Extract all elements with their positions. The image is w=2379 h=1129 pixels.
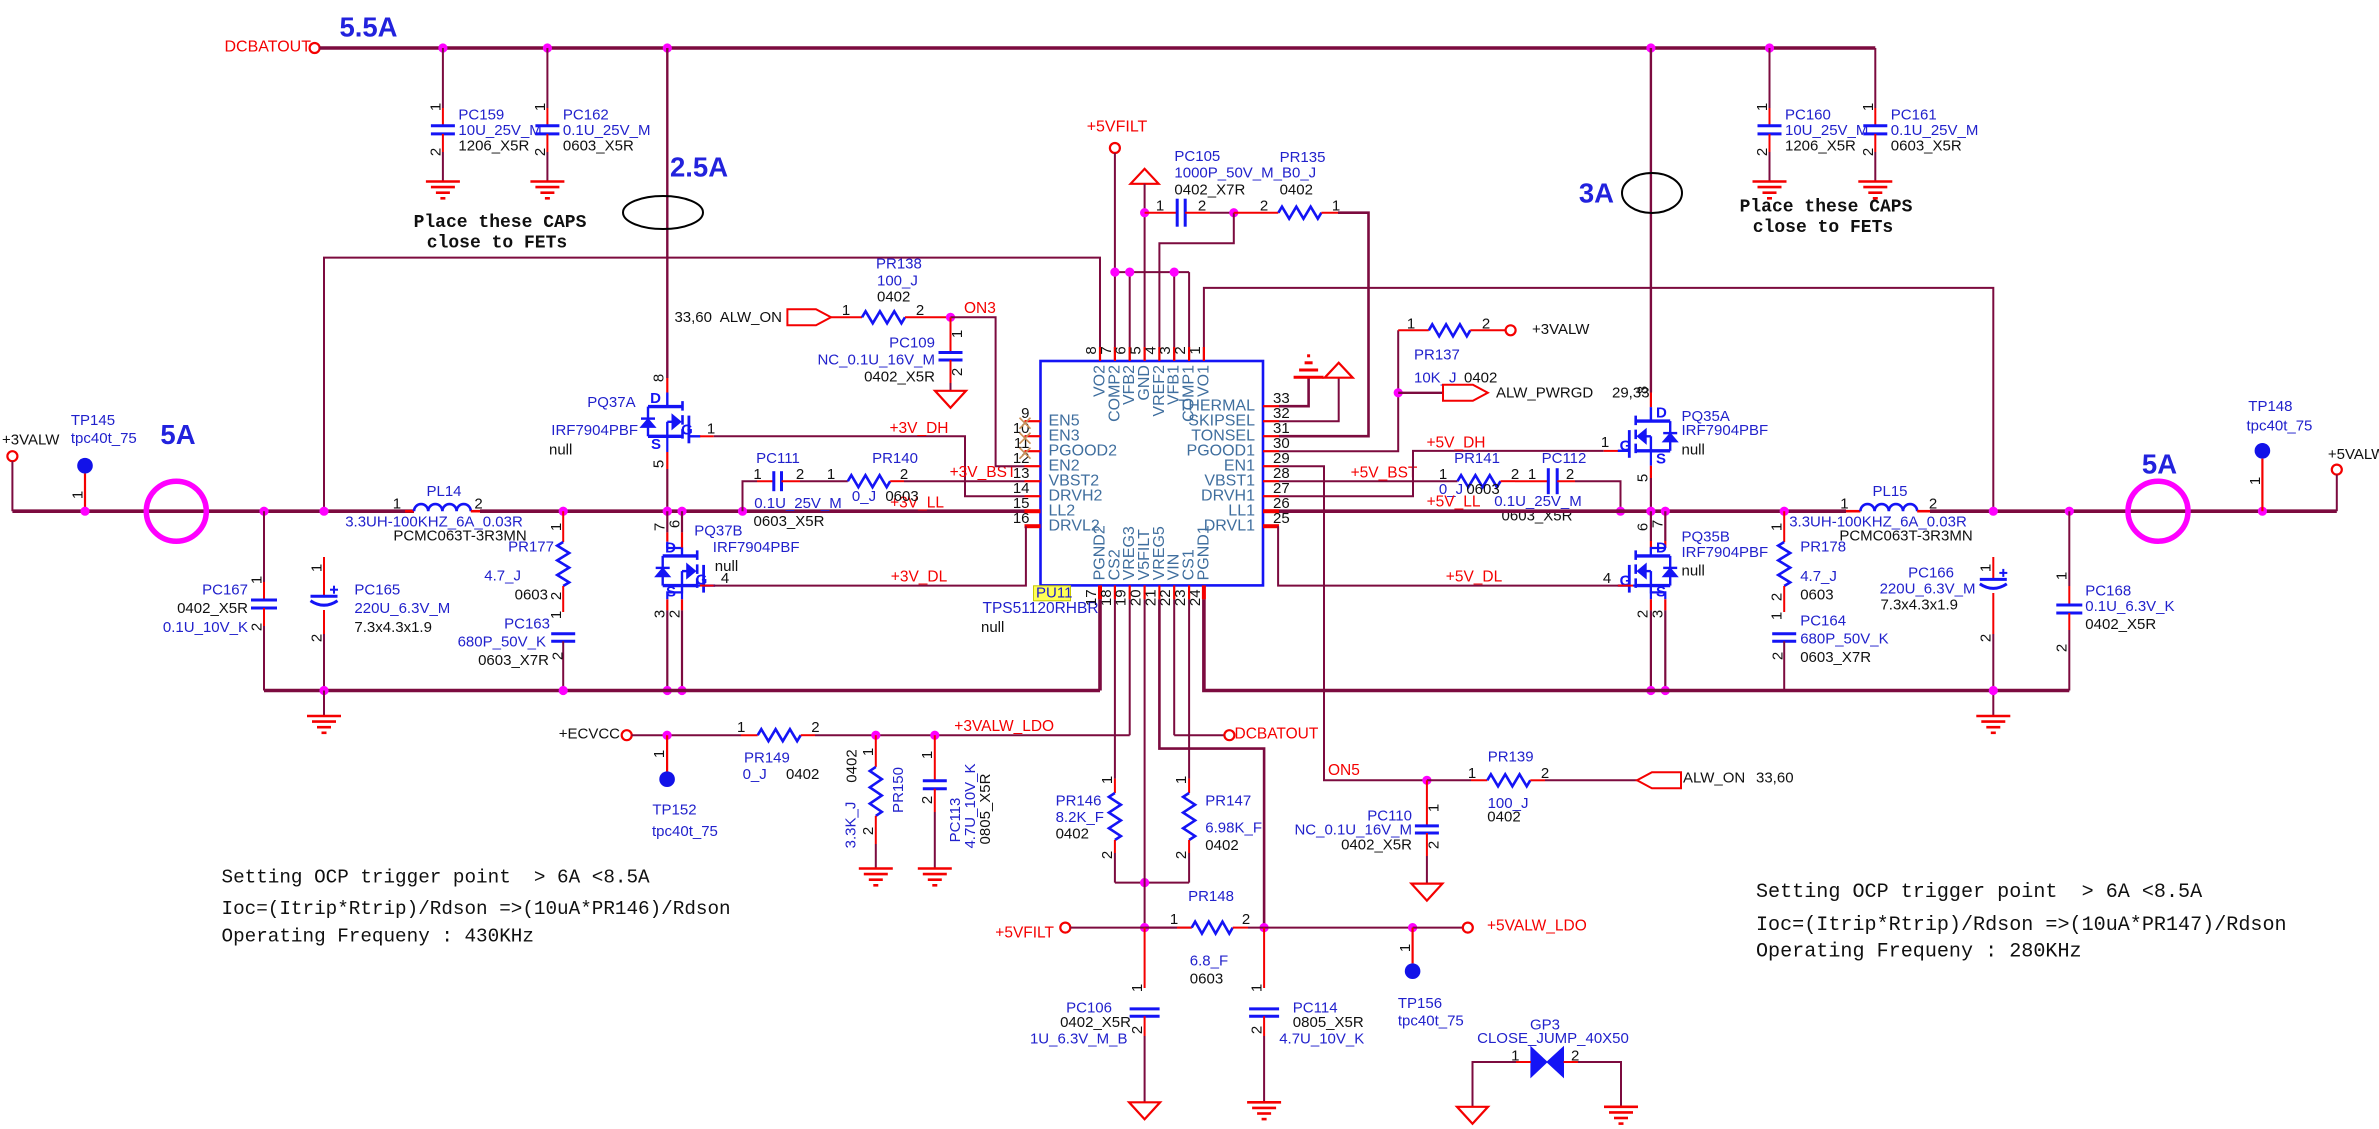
- wire PQ35B sources to ground bus: [1651, 586, 1665, 600]
- svg-text:PR150: PR150: [890, 767, 907, 813]
- wire PQ37B gate +3V_DL to DRVL2 (pin 16): [694, 584, 701, 586]
- svg-text:PR138: PR138: [876, 256, 922, 273]
- svg-text:0805_X5R: 0805_X5R: [977, 773, 994, 844]
- IC top pins 8-1 stubs and names: [1099, 347, 1101, 361]
- svg-text:1: 1: [393, 496, 401, 513]
- svg-text:0402: 0402: [1280, 181, 1313, 198]
- svg-text:IRF7904PBF: IRF7904PBF: [551, 422, 638, 439]
- capacitor PC113: [930, 731, 939, 740]
- svg-text:Setting OCP trigger point > 6: Setting OCP trigger point > 6A <8.5A: [222, 867, 651, 889]
- ground arrow (below PC109): [935, 391, 966, 408]
- svg-text:680P_50V_K: 680P_50V_K: [1800, 631, 1888, 648]
- svg-text:0603_X5R: 0603_X5R: [563, 138, 634, 155]
- transistor PQ37A (high-side FET, 3V): [666, 378, 668, 393]
- current loop ellipse (3A): [1622, 173, 1682, 213]
- svg-text:2: 2: [249, 623, 266, 631]
- wire +ECVCC / +3VALW_LDO row: [632, 734, 741, 736]
- svg-text:1: 1: [860, 748, 877, 756]
- svg-text:0.1U_25V_M: 0.1U_25V_M: [754, 495, 842, 512]
- wire COMP/VFB row (pins 7,6,3,2): [1115, 271, 1189, 273]
- svg-text:3: 3: [1650, 610, 1667, 618]
- svg-text:2: 2: [1754, 148, 1771, 156]
- svg-text:Setting OCP trigger point > 6: Setting OCP trigger point > 6A <8.5A: [1756, 881, 2203, 904]
- svg-text:2: 2: [667, 610, 684, 618]
- wire ground bus (left): [264, 689, 1100, 693]
- svg-text:1U_6.3V_M_B: 1U_6.3V_M_B: [1030, 1031, 1128, 1048]
- svg-text:1: 1: [1601, 434, 1609, 451]
- current loop circle 5A (left): [146, 481, 206, 541]
- svg-text:null: null: [549, 442, 572, 459]
- junction dots on top bus: [438, 43, 447, 52]
- svg-text:0402: 0402: [1205, 837, 1238, 854]
- svg-text:0603: 0603: [1800, 587, 1833, 604]
- svg-text:+5V_DL: +5V_DL: [1446, 569, 1503, 586]
- svg-text:1: 1: [532, 103, 549, 111]
- svg-text:2: 2: [1566, 466, 1574, 483]
- svg-text:PC109: PC109: [889, 335, 935, 352]
- svg-text:PQ37B: PQ37B: [694, 522, 742, 539]
- svg-text:1: 1: [548, 523, 565, 531]
- svg-text:PC162: PC162: [563, 107, 609, 124]
- svg-text:2.5A: 2.5A: [670, 152, 728, 183]
- wire PQ35A source to LL1 bus: [1650, 451, 1652, 466]
- node dots ground bus left: [319, 686, 328, 695]
- svg-text:TPS51120RHBR: TPS51120RHBR: [983, 600, 1099, 617]
- svg-text:1: 1: [1468, 765, 1476, 782]
- resistor PR147 (CS1 OCP set): [1188, 599, 1190, 778]
- capacitor PC161: [1874, 48, 1876, 108]
- testpoint TP152: [663, 731, 672, 740]
- svg-text:Operating Frequeny : 430KHz: Operating Frequeny : 430KHz: [222, 925, 534, 947]
- svg-text:2: 2: [532, 148, 549, 156]
- wire +3VALW output bus (left of PL14): [12, 509, 414, 513]
- svg-text:0.1U_10V_K: 0.1U_10V_K: [163, 619, 248, 636]
- svg-text:G: G: [681, 422, 693, 439]
- svg-text:1206_X5R: 1206_X5R: [458, 138, 529, 155]
- wire +5VFILT row: [1070, 927, 1191, 929]
- svg-text:1: 1: [1978, 564, 1995, 572]
- IC left pins 9-16 stubs and names: [1025, 420, 1041, 422]
- svg-text:5: 5: [651, 460, 668, 468]
- ground (below PC113): [918, 867, 952, 870]
- svg-text:1: 1: [548, 611, 565, 619]
- svg-text:0402_X5R: 0402_X5R: [1060, 1014, 1131, 1031]
- resistor PR138: [831, 316, 862, 318]
- svg-text:1: 1: [1170, 911, 1178, 928]
- node PC105 pin2 junction: [1229, 208, 1238, 217]
- svg-text:ALW_ON: ALW_ON: [1683, 770, 1745, 787]
- svg-text:+5VFILT: +5VFILT: [1087, 119, 1148, 136]
- svg-text:10U_25V_M: 10U_25V_M: [458, 122, 541, 139]
- svg-text:PQ35B: PQ35B: [1682, 528, 1730, 545]
- power arrow (above SKIPSEL pin 32): [1279, 378, 1339, 422]
- svg-text:0_J: 0_J: [743, 766, 767, 783]
- svg-text:NC_0.1U_16V_M: NC_0.1U_16V_M: [817, 352, 935, 369]
- svg-text:PGND1: PGND1: [1195, 525, 1212, 580]
- ground (earth below left bus): [323, 691, 325, 717]
- wire VBST1 (pin 28) +5V_BST: [1279, 480, 1458, 482]
- svg-text:5A: 5A: [160, 419, 195, 450]
- svg-text:PC112: PC112: [1542, 450, 1587, 467]
- svg-text:IRF7904PBF: IRF7904PBF: [713, 539, 800, 556]
- svg-text:CLOSE_JUMP_40X50: CLOSE_JUMP_40X50: [1477, 1030, 1629, 1047]
- svg-text:2: 2: [1198, 198, 1206, 215]
- svg-text:PC160: PC160: [1785, 107, 1831, 124]
- svg-text:1: 1: [1528, 466, 1536, 483]
- svg-text:TP148: TP148: [2248, 398, 2292, 415]
- svg-text:+5V_LL: +5V_LL: [1427, 494, 1481, 511]
- svg-text:8: 8: [1635, 386, 1652, 394]
- svg-text:+3VALW: +3VALW: [1532, 321, 1590, 338]
- svg-text:1: 1: [1099, 776, 1116, 784]
- svg-text:PR148: PR148: [1188, 888, 1234, 905]
- svg-text:G: G: [1620, 573, 1632, 590]
- svg-text:2: 2: [1129, 1026, 1146, 1034]
- capacitor PC111 (bootstrap): [738, 507, 747, 516]
- transistor PQ35A (high-side FET, 5V): [1650, 393, 1652, 408]
- svg-text:10U_25V_M: 10U_25V_M: [1785, 122, 1868, 139]
- svg-text:6.98K_F: 6.98K_F: [1205, 820, 1262, 837]
- svg-text:+ECVCC: +ECVCC: [559, 726, 620, 743]
- svg-text:2: 2: [919, 796, 936, 804]
- capacitor PC112 (bootstrap): [1515, 480, 1548, 482]
- svg-text:tpc40t_75: tpc40t_75: [71, 430, 137, 447]
- svg-text:2: 2: [549, 652, 566, 660]
- svg-text:0402_X5R: 0402_X5R: [2085, 616, 2156, 633]
- svg-text:0402: 0402: [844, 749, 861, 782]
- svg-text:2: 2: [2054, 644, 2071, 652]
- op-amp U1 IC PU11 TPS51120RHBR body: [1041, 361, 1264, 585]
- svg-text:PC165: PC165: [354, 581, 400, 598]
- svg-text:1: 1: [1425, 804, 1442, 812]
- svg-text:null: null: [1682, 442, 1705, 459]
- svg-text:2: 2: [1860, 148, 1877, 156]
- svg-text:2: 2: [1248, 1026, 1265, 1034]
- svg-text:1: 1: [1407, 316, 1415, 333]
- svg-text:2: 2: [949, 368, 966, 376]
- wire PQ35B gate +5V_DL to DRVL1 (pin 25): [1633, 584, 1639, 586]
- svg-text:0603_X7R: 0603_X7R: [478, 652, 549, 669]
- node dots LL1 bus: [1646, 507, 1655, 516]
- no-connect X on pins 9,10,11: [1020, 418, 1031, 429]
- svg-text:0603: 0603: [1190, 971, 1223, 988]
- port +5VALW_LDO: [1413, 927, 1463, 929]
- wire DRVH1 (pin 27) +5V_DH to PQ35A gate: [1279, 451, 1604, 496]
- svg-text:6.8_F: 6.8_F: [1190, 953, 1228, 970]
- svg-text:0402_X7R: 0402_X7R: [1174, 181, 1245, 198]
- wire VO1 sense (pin 1 to +5VALW output): [1204, 288, 1993, 511]
- svg-text:4.7_J: 4.7_J: [484, 568, 521, 585]
- svg-text:TP152: TP152: [652, 802, 696, 819]
- svg-text:+5VALW_LDO: +5VALW_LDO: [1487, 918, 1587, 935]
- ground (earth, above THERMAL pin 33): [1279, 377, 1309, 406]
- capacitor PC106: [1144, 928, 1146, 1009]
- svg-text:close to FETs: close to FETs: [1753, 218, 1893, 238]
- svg-text:1: 1: [1840, 496, 1848, 513]
- IC right pins 33-25 stubs and names: [1263, 405, 1279, 407]
- port ALW_PWRGD (output arrow): [1398, 392, 1443, 394]
- wire ground bus (right, PGND1): [1204, 599, 2069, 690]
- ground arrow (below PC106): [1129, 1102, 1160, 1119]
- svg-text:PC167: PC167: [202, 581, 248, 598]
- node ALW_PWRGD junction: [1394, 388, 1403, 397]
- capacitor PC114: [1263, 928, 1265, 988]
- svg-text:G: G: [1620, 438, 1632, 455]
- svg-text:PR140: PR140: [872, 450, 918, 467]
- capacitor PC109: [950, 317, 952, 352]
- capacitor PC105: [1140, 208, 1149, 217]
- svg-text:1206_X5R: 1206_X5R: [1785, 138, 1856, 155]
- svg-text:0402: 0402: [1056, 826, 1089, 843]
- svg-text:1: 1: [842, 302, 850, 319]
- svg-text:2: 2: [1770, 652, 1787, 660]
- svg-text:PC166: PC166: [1908, 565, 1954, 582]
- svg-text:33,60: 33,60: [674, 309, 712, 326]
- wire +5VFILT to pin 7: [1114, 153, 1116, 361]
- svg-text:+5V_DH: +5V_DH: [1426, 435, 1485, 452]
- svg-text:1: 1: [827, 466, 835, 483]
- svg-text:ALW_PWRGD: ALW_PWRGD: [1496, 384, 1593, 401]
- svg-text:1: 1: [1860, 103, 1877, 111]
- svg-text:TP145: TP145: [71, 412, 115, 429]
- resistor PR150: [871, 731, 880, 740]
- wire +5VALW output bus (right of PL15): [1930, 509, 2337, 513]
- wire GP3 pin2 to earth ground: [1564, 1061, 1579, 1063]
- svg-text:PR147: PR147: [1205, 792, 1251, 809]
- svg-text:0402: 0402: [877, 289, 910, 306]
- svg-text:1: 1: [737, 719, 745, 736]
- svg-text:PR146: PR146: [1056, 792, 1102, 809]
- power port +3VALW (right): [1506, 325, 1516, 335]
- svg-text:+3V_DH: +3V_DH: [889, 420, 948, 437]
- svg-text:S: S: [1656, 450, 1666, 467]
- svg-text:1: 1: [1754, 103, 1771, 111]
- wire VREG5 (pin 21) to +5VFILT net: [1159, 599, 1264, 927]
- svg-text:2: 2: [1482, 316, 1490, 333]
- ground (earth below GP3 pin2): [1604, 1106, 1638, 1109]
- wire PR149 to VREG3: [815, 734, 1130, 736]
- svg-text:IRF7904PBF: IRF7904PBF: [1682, 544, 1769, 561]
- port DCBATOUT (bottom, VIN): [1173, 599, 1175, 735]
- svg-text:2: 2: [1173, 851, 1190, 859]
- svg-text:5A: 5A: [2142, 449, 2177, 480]
- node ON3: [946, 313, 955, 322]
- svg-text:2: 2: [811, 719, 819, 736]
- svg-text:6: 6: [667, 520, 684, 528]
- svg-text:0603_X7R: 0603_X7R: [1800, 649, 1871, 666]
- svg-text:680P_50V_K: 680P_50V_K: [458, 633, 546, 650]
- svg-text:null: null: [1682, 563, 1705, 580]
- wire EN1 to ON5: [1279, 466, 1427, 780]
- svg-text:33,60: 33,60: [1756, 770, 1794, 787]
- svg-text:2: 2: [427, 148, 444, 156]
- svg-text:2: 2: [916, 302, 924, 319]
- ground (earth below PC114): [1247, 1101, 1281, 1104]
- svg-text:PC164: PC164: [1800, 612, 1846, 629]
- svg-text:Operating Frequeny : 280KHz: Operating Frequeny : 280KHz: [1756, 941, 2082, 964]
- svg-text:0.1U_25V_M: 0.1U_25V_M: [563, 122, 651, 139]
- svg-text:1: 1: [2247, 477, 2264, 485]
- svg-text:Place these CAPS: Place these CAPS: [1740, 198, 1913, 218]
- wire triangle to GND pin 5: [1144, 184, 1146, 361]
- svg-text:1: 1: [1129, 984, 1146, 992]
- ground (earth below right bus): [1992, 691, 1994, 717]
- svg-text:1000P_50V_M_B0_J: 1000P_50V_M_B0_J: [1174, 165, 1316, 182]
- capacitor PC159: [442, 48, 444, 108]
- wire PQ37A gate +3V_DH to DRVH2 (pin 14): [700, 435, 714, 437]
- svg-text:1: 1: [1248, 984, 1265, 992]
- capacitor PC160: [1769, 48, 1771, 108]
- ground (below PR150): [859, 867, 893, 870]
- wire +3V_BST to VBST2 (pin 13): [904, 480, 1025, 482]
- capacitor PC162: [546, 48, 548, 108]
- wire PR146/PR147 bottoms to V5FILT: [1115, 882, 1189, 884]
- svg-text:100_J: 100_J: [877, 273, 918, 290]
- svg-text:PC168: PC168: [2085, 582, 2131, 599]
- svg-text:PCMC063T-3R3MN: PCMC063T-3R3MN: [393, 527, 526, 544]
- svg-text:1: 1: [1156, 198, 1164, 215]
- inductor PL15: [1846, 510, 1860, 513]
- svg-text:0603: 0603: [515, 586, 548, 603]
- svg-text:5.5A: 5.5A: [339, 12, 397, 43]
- svg-text:ON3: ON3: [964, 300, 996, 317]
- svg-text:ON5: ON5: [1328, 762, 1360, 779]
- svg-text:D: D: [665, 540, 676, 557]
- resistor PR148: [1145, 927, 1177, 929]
- svg-text:2: 2: [1242, 911, 1250, 928]
- svg-text:0402: 0402: [1487, 809, 1520, 826]
- svg-text:0.1U_25V_M: 0.1U_25V_M: [1891, 122, 1979, 139]
- resistor PR137 (PGOOD1 pull-up): [1279, 330, 1398, 451]
- wire PC105 pin2 loop to VREF2 (pin 4): [1159, 213, 1233, 361]
- svg-text:ALW_ON: ALW_ON: [720, 309, 782, 326]
- svg-text:PR135: PR135: [1280, 149, 1326, 166]
- resistor PR177 (snubber): [559, 507, 568, 516]
- svg-text:D: D: [650, 390, 661, 407]
- svg-text:VO1: VO1: [1195, 365, 1212, 397]
- svg-text:1: 1: [651, 750, 668, 758]
- svg-text:0.1U_6.3V_K: 0.1U_6.3V_K: [2085, 598, 2174, 615]
- inductor PL14: [405, 510, 414, 513]
- svg-text:220U_6.3V_M: 220U_6.3V_M: [1880, 581, 1976, 598]
- svg-text:PR149: PR149: [744, 749, 790, 766]
- svg-text:7.3x4.3x1.9: 7.3x4.3x1.9: [354, 619, 432, 636]
- svg-text:1: 1: [249, 576, 266, 584]
- wire PQ37B sources to ground bus: [667, 586, 682, 600]
- svg-text:7: 7: [1650, 520, 1667, 528]
- wire PQ37A source to LL bus: [666, 436, 668, 452]
- wire PR135 to TONSEL (pin 31): [1279, 213, 1369, 437]
- svg-text:7.3x4.3x1.9: 7.3x4.3x1.9: [1880, 597, 1958, 614]
- svg-text:+3VALW_LDO: +3VALW_LDO: [954, 718, 1054, 735]
- svg-text:2: 2: [1425, 841, 1442, 849]
- svg-text:PC161: PC161: [1891, 107, 1937, 124]
- svg-text:TP156: TP156: [1398, 995, 1442, 1012]
- svg-text:null: null: [981, 619, 1004, 636]
- svg-text:PL14: PL14: [426, 483, 461, 500]
- svg-text:1: 1: [753, 466, 761, 483]
- svg-text:2: 2: [548, 592, 565, 600]
- node +5VALW_LDO junction: [1408, 923, 1417, 932]
- svg-text:4.7U_10V_K: 4.7U_10V_K: [1279, 1031, 1364, 1048]
- svg-text:2: 2: [1978, 634, 1995, 642]
- svg-text:tpc40t_75: tpc40t_75: [652, 823, 718, 840]
- capacitor PC168: [2068, 511, 2070, 586]
- svg-text:1: 1: [427, 103, 444, 111]
- svg-text:PR177: PR177: [508, 539, 554, 556]
- IC PU11 designator (yellow highlight): [1034, 586, 1071, 601]
- wire 2.5A branch (top bus to PQ37A drain): [666, 48, 668, 378]
- svg-text:1: 1: [1187, 346, 1204, 354]
- svg-text:1: 1: [949, 330, 966, 338]
- svg-text:+5VFILT: +5VFILT: [995, 925, 1054, 942]
- svg-text:D: D: [1656, 540, 1667, 557]
- svg-text:1: 1: [707, 421, 715, 438]
- wire 3A branch (top bus to PQ35A drain): [1650, 48, 1652, 393]
- svg-text:2: 2: [1769, 593, 1786, 601]
- current loop ellipse (2.5A): [623, 196, 703, 229]
- svg-text:S: S: [651, 436, 661, 453]
- svg-text:0402_X5R: 0402_X5R: [1341, 837, 1412, 854]
- svg-text:+3V_DL: +3V_DL: [891, 569, 948, 586]
- wire PC112 to LL1 bus: [1575, 481, 1621, 511]
- testpoint TP156: [1411, 928, 1413, 964]
- svg-text:1: 1: [1397, 944, 1414, 952]
- wire +3VALW to output bus: [11, 461, 13, 511]
- svg-text:1: 1: [70, 491, 87, 499]
- svg-text:8: 8: [651, 374, 668, 382]
- svg-text:DCBATOUT: DCBATOUT: [1235, 726, 1319, 743]
- svg-text:PL15: PL15: [1872, 483, 1907, 500]
- svg-text:2: 2: [1099, 851, 1116, 859]
- svg-text:PC163: PC163: [504, 615, 550, 632]
- svg-text:PC105: PC105: [1174, 148, 1220, 165]
- svg-text:D: D: [1656, 405, 1667, 422]
- svg-text:+3VALW: +3VALW: [2, 432, 60, 449]
- svg-text:PQ37A: PQ37A: [587, 394, 635, 411]
- svg-text:2: 2: [860, 827, 877, 835]
- svg-text:close to FETs: close to FETs: [427, 234, 567, 254]
- svg-text:0805_X5R: 0805_X5R: [1293, 1014, 1364, 1031]
- svg-text:IRF7904PBF: IRF7904PBF: [1682, 422, 1769, 439]
- wire V5FILT (pin 20) down to +5VFILT net: [1144, 599, 1146, 927]
- power arrow (VIN triangle above PC105): [1131, 169, 1159, 184]
- svg-text:0603_X5R: 0603_X5R: [1891, 138, 1962, 155]
- svg-text:Ioc=(Itrip*Rtrip)/Rdson =>(10u: Ioc=(Itrip*Rtrip)/Rdson =>(10uA*PR146)/R…: [222, 898, 731, 920]
- ground arrow (below PC110): [1411, 884, 1442, 901]
- svg-text:0_J: 0_J: [852, 488, 876, 505]
- wire GP3 pin1 to ground arrow: [1516, 1061, 1531, 1063]
- svg-text:0402_X5R: 0402_X5R: [864, 369, 935, 386]
- wire LL2 switch node bus: [480, 509, 1025, 513]
- svg-text:1: 1: [1173, 776, 1190, 784]
- svg-text:PCMC063T-3R3MN: PCMC063T-3R3MN: [1839, 527, 1972, 544]
- capacitor PC167: [259, 507, 268, 516]
- svg-text:1: 1: [2054, 572, 2071, 580]
- svg-text:4: 4: [1603, 570, 1611, 587]
- svg-text:3.3K_J: 3.3K_J: [843, 802, 860, 849]
- wire ON3 to EN2 (pin 12): [951, 317, 1025, 466]
- svg-text:0402_X5R: 0402_X5R: [177, 600, 248, 617]
- current loop circle 5A (right): [2128, 481, 2188, 541]
- svg-text:5: 5: [1635, 474, 1652, 482]
- svg-text:PC159: PC159: [458, 107, 504, 124]
- svg-text:0603_X5R: 0603_X5R: [754, 513, 825, 530]
- resistor PR140 (bootstrap): [800, 480, 848, 482]
- transistor PQ35B (low-side FET, 5V): [1650, 511, 1652, 541]
- wire PC168 bottom to ground bus: [2068, 641, 2070, 691]
- svg-text:Ioc=(Itrip*Rtrip)/Rdson =>(10u: Ioc=(Itrip*Rtrip)/Rdson =>(10uA*PR147)/R…: [1756, 914, 2287, 937]
